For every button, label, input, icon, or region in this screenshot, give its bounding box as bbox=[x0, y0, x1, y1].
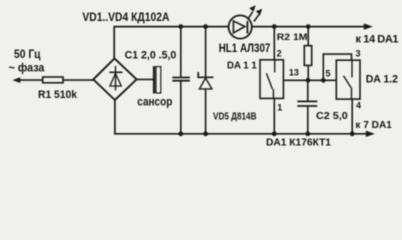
svg-text:2: 2 bbox=[277, 49, 282, 59]
wire pin1 from DA1.1 to bottom bus bbox=[273, 98, 275, 133]
node C2 bottom bus junction bbox=[305, 131, 310, 136]
wire pin4 DA1.2 to bottom bus bbox=[351, 99, 353, 134]
wire bottom bus bbox=[115, 100, 370, 134]
switch DA1.2 box bbox=[336, 60, 360, 99]
zener diode VD5 triangle bbox=[199, 78, 212, 89]
node pin3 loop junction bbox=[321, 78, 326, 83]
node C1 top bus junction bbox=[178, 24, 183, 29]
arrowhead left input bbox=[12, 77, 20, 83]
wire left input with arrow bbox=[16, 79, 43, 81]
resistor R2 bbox=[304, 46, 311, 66]
svg-text:4: 4 bbox=[356, 100, 361, 110]
svg-text:DA1 К176КТ1: DA1 К176КТ1 bbox=[266, 137, 331, 149]
svg-text:VD5 Д814В: VD5 Д814В bbox=[213, 110, 257, 122]
node pin4 bottom bus junction bbox=[350, 131, 355, 136]
wire pin3 DA1.2 loop to pin5 net bbox=[323, 54, 351, 80]
capacitor C1 plates bbox=[172, 77, 190, 79]
node VD5 top bus junction bbox=[203, 24, 208, 29]
svg-text:DA 1.2: DA 1.2 bbox=[366, 74, 398, 86]
node DA1.1 pin2 top bus junction bbox=[272, 24, 277, 29]
wire R2 bottom to node bbox=[307, 65, 309, 80]
wire VD5 top bbox=[205, 27, 207, 78]
svg-text:к 14 DA1: к 14 DA1 bbox=[356, 33, 399, 45]
switch DA1.1 contacts bbox=[266, 60, 274, 99]
wire VD5 bottom bbox=[205, 89, 207, 134]
node R2 top bus junction bbox=[306, 24, 311, 29]
wire R2 top bbox=[307, 27, 309, 46]
svg-text:50 Гц: 50 Гц bbox=[14, 47, 41, 61]
svg-text:R1 510k: R1 510k bbox=[38, 89, 78, 101]
arrowhead к 7 DA1 bbox=[366, 131, 375, 137]
svg-text:1: 1 bbox=[277, 103, 282, 113]
svg-text:VD1..VD4 КД102А: VD1..VD4 КД102А bbox=[82, 10, 169, 24]
zener diode VD5 cathode bar with hook bbox=[198, 72, 213, 77]
sensor plate (сенсор) bbox=[153, 66, 155, 93]
LED HL1 triangle bbox=[233, 21, 245, 33]
bridge internal diode bbox=[109, 66, 122, 91]
wire top bus left segment bbox=[114, 27, 228, 59]
LED HL1 circle bbox=[229, 15, 252, 38]
switch DA1.2 contacts bbox=[344, 60, 353, 99]
svg-text:13: 13 bbox=[289, 68, 299, 78]
wire R1 to bridge bbox=[63, 79, 94, 81]
LED HL1 light arrow 2 bbox=[254, 14, 259, 21]
wire C1 bottom bbox=[180, 82, 182, 134]
svg-text:R2 1M: R2 1M bbox=[277, 32, 308, 43]
wire C2 top bbox=[307, 80, 309, 100]
capacitor C2 plates bbox=[297, 100, 317, 102]
LED HL1 cathode bar bbox=[246, 21, 248, 34]
switch DA1.1 box bbox=[260, 60, 283, 99]
svg-text:к 7 DA1: к 7 DA1 bbox=[355, 119, 392, 131]
node VD5 bottom bus junction bbox=[203, 131, 208, 136]
wire bridge right vertex to sensor plate bbox=[137, 78, 153, 80]
svg-text:сансор: сансор bbox=[137, 97, 172, 109]
arrowhead к 14 DA1 bbox=[364, 23, 373, 29]
resistor R1 bbox=[43, 77, 63, 83]
wire pin2 from bus to DA1.1 bbox=[273, 27, 275, 60]
node R2/C2 junction bbox=[306, 78, 311, 83]
node C1 bottom bus junction bbox=[178, 131, 183, 136]
node DA1.1 pin1 bottom bus junction bbox=[272, 131, 277, 136]
svg-text:HL1 АЛ307: HL1 АЛ307 bbox=[219, 43, 271, 55]
svg-text:C2 5,0: C2 5,0 bbox=[316, 110, 348, 122]
bridge rectifier VD1..VD4 diamond bbox=[93, 58, 136, 100]
svg-text:DA 1 1: DA 1 1 bbox=[227, 60, 257, 71]
svg-text:~ фаза: ~ фаза bbox=[9, 60, 45, 74]
wire C2 bottom bbox=[307, 107, 309, 134]
wire pin13 DA1.1 to pin5 DA1.2 bbox=[283, 79, 336, 81]
svg-text:C1 2,0 .5,0: C1 2,0 .5,0 bbox=[125, 50, 177, 62]
wire C1 top bbox=[180, 27, 182, 77]
LED HL1 light arrow 1 bbox=[248, 12, 253, 20]
svg-text:5: 5 bbox=[326, 68, 331, 78]
svg-text:3: 3 bbox=[356, 49, 361, 59]
wire top bus right segment bbox=[252, 26, 368, 28]
